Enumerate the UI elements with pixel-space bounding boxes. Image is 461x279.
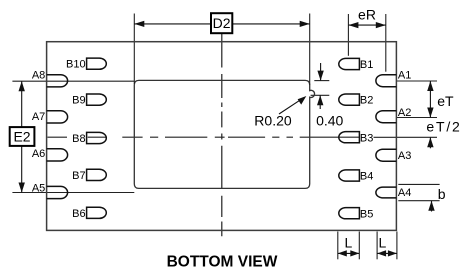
svg-text:A5: A5 xyxy=(32,182,45,194)
svg-text:eT: eT xyxy=(437,93,454,109)
svg-text:BOTTOM VIEW: BOTTOM VIEW xyxy=(167,253,278,270)
svg-text:L: L xyxy=(379,235,387,251)
svg-text:A8: A8 xyxy=(32,70,45,82)
svg-text:B1: B1 xyxy=(360,59,373,71)
svg-text:B7: B7 xyxy=(72,170,85,182)
svg-text:B9: B9 xyxy=(72,95,85,107)
svg-text:B3: B3 xyxy=(360,132,373,144)
svg-text:A1: A1 xyxy=(398,70,411,82)
svg-text:D2: D2 xyxy=(213,15,231,31)
svg-text:b: b xyxy=(438,186,446,202)
svg-text:B4: B4 xyxy=(360,171,373,183)
svg-text:B2: B2 xyxy=(360,95,373,107)
svg-text:L: L xyxy=(345,235,353,251)
svg-text:A4: A4 xyxy=(398,187,411,199)
svg-text:R0.20: R0.20 xyxy=(254,113,292,129)
svg-text:A7: A7 xyxy=(32,111,45,123)
svg-text:B5: B5 xyxy=(360,208,373,220)
svg-text:A6: A6 xyxy=(32,148,45,160)
svg-text:B6: B6 xyxy=(72,208,85,220)
svg-text:0.40: 0.40 xyxy=(316,112,343,128)
svg-text:E2: E2 xyxy=(13,128,30,144)
svg-text:B10: B10 xyxy=(66,59,86,71)
svg-text:eR: eR xyxy=(358,7,376,23)
svg-text:A2: A2 xyxy=(398,107,411,119)
svg-text:eT/2: eT/2 xyxy=(426,118,461,134)
svg-text:A3: A3 xyxy=(398,150,411,162)
svg-text:B8: B8 xyxy=(72,133,85,145)
